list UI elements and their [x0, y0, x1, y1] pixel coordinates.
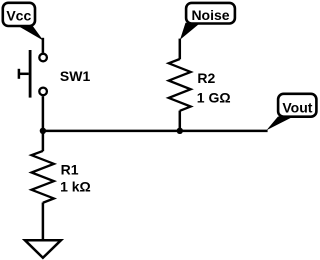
pushbutton switch SW1: [19, 50, 47, 98]
wire Noise to R2: [179, 39, 182, 60]
wire node A to R1: [42, 131, 45, 152]
wire SW1 bottom to node A: [42, 96, 45, 131]
svg-text:R1: R1: [61, 162, 79, 178]
svg-text:Vcc: Vcc: [6, 7, 31, 23]
svg-text:Noise: Noise: [191, 7, 229, 23]
wire R1 to ground: [42, 203, 45, 241]
wire R2 to node B: [179, 111, 182, 132]
ground: [25, 240, 61, 258]
junction node A: [40, 128, 46, 134]
resistor R2: [169, 59, 191, 111]
svg-text:Vout: Vout: [282, 99, 312, 115]
horizontal wire node A to Vout: [43, 130, 268, 133]
net flag Vout: [267, 94, 317, 130]
svg-text:R2: R2: [197, 70, 215, 86]
resistor R1: [32, 151, 54, 203]
net flag Vcc: [3, 3, 44, 41]
svg-text:1 kΩ: 1 kΩ: [60, 179, 91, 195]
junction node B (R2 to wire): [177, 128, 183, 134]
svg-text:SW1: SW1: [60, 68, 91, 84]
svg-text:1 GΩ: 1 GΩ: [197, 89, 231, 105]
net flag Noise: [180, 3, 235, 40]
wire Vcc to SW1 top: [42, 38, 45, 53]
